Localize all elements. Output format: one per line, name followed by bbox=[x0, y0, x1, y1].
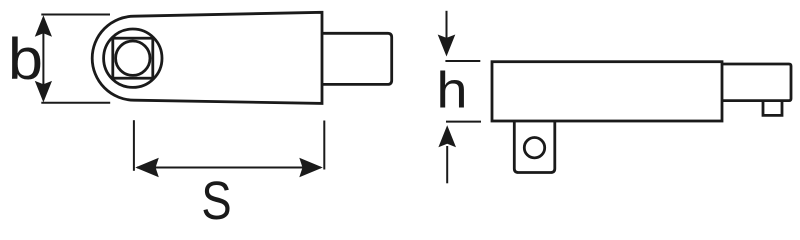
svg-text:S: S bbox=[201, 170, 231, 225]
svg-text:h: h bbox=[436, 62, 467, 119]
svg-text:b: b bbox=[8, 26, 43, 91]
